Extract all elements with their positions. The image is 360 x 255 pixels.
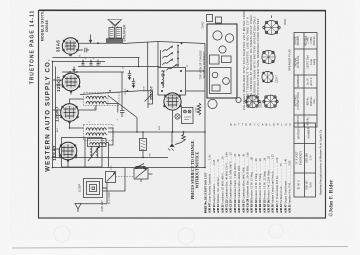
node dot <box>97 42 99 44</box>
wire detector bus <box>80 91 153 95</box>
trimmer cap arrow 1 <box>128 70 131 80</box>
trimmer cap arrow 2 <box>132 78 135 88</box>
oscillator coil box <box>88 139 107 147</box>
tube V4 12SA7 <box>59 142 78 162</box>
socket V1 bottom view <box>263 16 280 35</box>
socket V2 bottom view <box>262 50 275 63</box>
wire plate supply x205 vertical <box>204 44 206 168</box>
tuning gang C1 <box>106 172 116 183</box>
wire 12SK7 cathode down <box>70 121 84 128</box>
wire IF T2 to plate feed <box>106 104 118 113</box>
svg-text:A38 187: A38 187 <box>305 180 309 190</box>
svg-text:+: + <box>93 57 95 61</box>
IF transformer T3 dashed box <box>84 125 114 141</box>
wire IF T3 to 12SA7 <box>108 128 113 145</box>
svg-text:C-1 OSC: C-1 OSC <box>107 191 111 204</box>
wire top bus to x205 <box>158 42 205 44</box>
parts numbers bold overlay <box>204 198 292 213</box>
wire 35Z5 cathode down <box>172 110 174 132</box>
wire across bottom of rectifier <box>108 131 205 133</box>
tube V5 35Z5GT rectifier <box>163 93 182 110</box>
svg-text:SPEAKER PLUG: SPEAKER PLUG <box>288 49 292 71</box>
IF transformer T2 dashed box <box>84 93 120 106</box>
svg-text:SETTING: SETTING <box>294 95 298 106</box>
svg-text:12SK7: 12SK7 <box>276 75 279 83</box>
wire loop top link <box>103 168 125 192</box>
arrow to plate wire <box>89 35 91 43</box>
svg-text:3.00: 3.00 <box>309 182 313 188</box>
svg-text:2nd I.F.: 2nd I.F. <box>309 77 313 86</box>
wire 12SQ7 plate <box>62 71 124 73</box>
resistor R8 <box>183 131 185 133</box>
svg-text:1st I.F.: 1st I.F. <box>306 77 310 85</box>
wire down from bus <box>171 132 173 144</box>
wire plate 35A5 to transformer <box>79 42 107 44</box>
svg-text:455 Kc.: 455 Kc. <box>306 96 310 105</box>
wire ballast to bus stubs <box>186 71 206 91</box>
band switch arrows <box>163 43 183 71</box>
svg-text:12SK7: 12SK7 <box>55 106 60 122</box>
wire loop to gang <box>103 183 108 204</box>
svg-text:Osc.: Osc. <box>312 98 316 104</box>
svg-text:"B" 90 V.: "B" 90 V. <box>297 180 301 190</box>
ground chassis <box>169 144 174 147</box>
ballast resistor box <box>158 68 186 96</box>
svg-text:A38-147: A38-147 <box>100 200 104 212</box>
capacitor C12 <box>120 72 125 117</box>
wire 12SQ7 left stubs <box>53 80 72 95</box>
wire 12SK7 left stubs <box>53 110 61 116</box>
wire vertical feed x139 <box>138 58 140 67</box>
socket V4 bottom view <box>245 95 260 107</box>
oscillator coil <box>90 143 106 145</box>
output transformer T1 <box>106 27 123 44</box>
svg-text:+: + <box>85 57 87 61</box>
tuning gang C2 <box>134 166 153 182</box>
oscillator coil box L2 <box>62 138 103 168</box>
capacitor C8 electrolytic + <box>82 57 87 66</box>
punch hole artifacts <box>54 226 70 242</box>
wire B- bus bottom <box>53 167 206 169</box>
IF T2 primary coil <box>86 96 106 98</box>
svg-text:BATTERY: BATTERY <box>297 127 301 139</box>
svg-text:SPEAKER: SPEAKER <box>123 24 127 42</box>
tube V1 35A5 <box>62 38 79 56</box>
wire speaker field down <box>157 42 159 68</box>
scan bottom edge line <box>12 247 348 249</box>
svg-text:MODELS D1070,: MODELS D1070, <box>41 11 45 42</box>
svg-text:SIGNAL: SIGNAL <box>294 57 298 67</box>
capacitor C9 electrolytic + <box>90 57 95 66</box>
svg-text:B A T T E R Y C A B L E P L: B A T T E R Y C A B L E P L U G <box>230 123 292 127</box>
alignment table <box>294 33 317 128</box>
IF T2 secondary coil <box>86 101 106 103</box>
wire cathode bus <box>53 61 106 63</box>
wire switch feed <box>160 50 162 68</box>
svg-text:12SA7: 12SA7 <box>52 145 57 161</box>
chassis knobs <box>207 15 213 22</box>
svg-text:400 Mod.: 400 Mod. <box>304 35 308 46</box>
svg-text:Reprinted through courtesy of: Reprinted through courtesy of Western Au… <box>319 129 323 195</box>
pilot socket small <box>236 97 241 102</box>
wire 12SA7 left stubs <box>53 149 69 168</box>
chassis layout box <box>207 24 237 98</box>
wire transformer secondary to right bus <box>123 42 158 44</box>
loop antenna L1 <box>84 179 107 198</box>
svg-text:455 Kc.: 455 Kc. <box>306 116 310 125</box>
switch S1 on volume <box>136 164 146 169</box>
svg-text:35Z5GT: 35Z5GT <box>150 85 154 100</box>
IF T3 primary coil <box>86 128 106 130</box>
border frame <box>39 11 326 219</box>
socket V3 bottom view <box>262 71 273 82</box>
svg-text:EVEREADY: EVEREADY <box>299 151 303 165</box>
resistor block box <box>182 108 194 124</box>
svg-text:GANG: GANG <box>202 21 205 28</box>
node dot <box>138 66 140 68</box>
svg-text:12SQ7: 12SQ7 <box>56 76 61 92</box>
svg-text:250M: 250M <box>144 86 146 92</box>
value labels <box>56 54 198 170</box>
svg-text:AND WITH RECTIFIER TUBE REMOVE: AND WITH RECTIFIER TUBE REMOVED FROM SOC… <box>256 17 260 102</box>
wire B- bus lower <box>53 157 169 159</box>
wire 12SK7 grid to IF T3 <box>70 99 84 104</box>
antenna symbol <box>75 204 107 213</box>
svg-text:NUMBER: NUMBER <box>307 127 311 138</box>
svg-text:STAGE: STAGE <box>294 36 298 45</box>
resistor R5 zigzag <box>197 103 201 115</box>
junction dots on bus under tube <box>59 157 61 159</box>
svg-text:WESTERN AUTO SUPPLY CO.: WESTERN AUTO SUPPLY CO. <box>45 58 52 171</box>
capacitor C6 <box>79 48 90 53</box>
svg-text:AVC: AVC <box>56 127 59 132</box>
svg-text:35A5: 35A5 <box>56 40 61 52</box>
svg-text:D2048: D2048 <box>45 20 49 32</box>
svg-text:30% Kc.: 30% Kc. <box>312 35 316 45</box>
socket V5 bottom view <box>263 95 278 108</box>
speaker cone <box>108 20 122 27</box>
svg-text:LOOP: LOOP <box>78 184 82 192</box>
wire AVC line down <box>52 62 54 168</box>
volume control R2 <box>145 91 153 108</box>
svg-text:35A5: 35A5 <box>283 18 287 25</box>
svg-text:WITHOUT NOTICE: WITHOUT NOTICE <box>195 151 200 188</box>
svg-text:SHOWING TRIMMERS: SHOWING TRIMMERS <box>202 51 206 78</box>
svg-text:A38 51: A38 51 <box>288 204 292 213</box>
svg-text:©John F. Rider: ©John F. Rider <box>329 179 335 217</box>
dial circle <box>208 99 217 108</box>
svg-text:12SA7 Grid: 12SA7 Grid <box>306 55 310 69</box>
tube V3 12SK7 <box>60 104 79 124</box>
parts list rows <box>204 152 292 213</box>
diagonal AVC wire <box>108 96 137 133</box>
svg-text:2200: 2200 <box>196 107 198 113</box>
junction dots <box>52 61 206 169</box>
wire audio feed vertical <box>147 42 149 91</box>
svg-text:OSC: OSC <box>111 165 113 170</box>
svg-text:1 MEG: 1 MEG <box>125 88 127 95</box>
dashed gang link <box>116 176 134 178</box>
svg-text:Gang: Gang <box>312 58 316 65</box>
svg-text:"A" 9 VOLT: "A" 9 VOLT <box>295 151 299 164</box>
wire osc box drop <box>106 143 109 168</box>
tube V2 12SQ7 <box>62 73 81 93</box>
wire bias bus <box>78 66 160 68</box>
svg-text:12SA7: 12SA7 <box>260 100 263 108</box>
svg-text:TOP VIEW OF CHASSIS: TOP VIEW OF CHASSIS <box>199 50 203 79</box>
svg-text:1.70: 1.70 <box>309 155 313 161</box>
svg-text:TRUETONE PAGE 14-11: TRUETONE PAGE 14-11 <box>30 10 36 85</box>
svg-text:TRIMMERS: TRIMMERS <box>296 74 300 88</box>
electrolytic C20 <box>140 132 147 158</box>
pilot lamp <box>175 114 180 119</box>
svg-text:A38 185: A38 185 <box>305 153 309 163</box>
battery table <box>294 123 316 197</box>
IF T3 secondary coil <box>86 133 106 135</box>
wire 12SK7 plate right <box>79 105 97 110</box>
svg-text:OUTPUT: OUTPUT <box>296 115 300 126</box>
wire B minus vertical <box>55 67 57 158</box>
capacitor C10 <box>97 60 100 66</box>
wire screen bus <box>53 57 140 59</box>
